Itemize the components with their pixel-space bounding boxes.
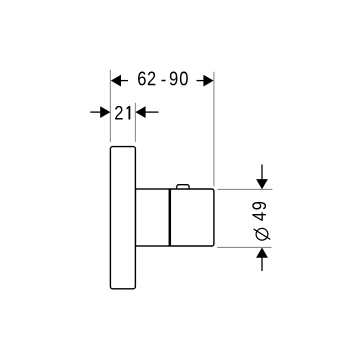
extension line 21 right (plate right edge) bbox=[134, 103, 136, 142]
diameter symbol slash bbox=[254, 229, 271, 239]
sleeve between plate and handle bbox=[135, 189, 169, 246]
dimension 21 left arrow bbox=[90, 106, 110, 118]
extension line left (plate left edge) bbox=[109, 70, 111, 143]
divider line sleeve/handle bbox=[169, 188, 172, 246]
dimension text 62 - 90 bbox=[138, 72, 188, 86]
dimension dia49 top arrow bbox=[256, 164, 268, 189]
dimension 21 right arrow bbox=[135, 106, 158, 118]
diameter symbol circle bbox=[256, 228, 268, 240]
extension line 62-90 right (handle front) bbox=[213, 72, 215, 187]
escutcheon wall plate (side view) bbox=[110, 147, 135, 289]
handle body (front knob) bbox=[170, 189, 214, 246]
dimension text 21 bbox=[115, 106, 130, 120]
dimension text 49 (rotated) bbox=[252, 202, 266, 221]
extension line dia49 bottom bbox=[217, 246, 272, 248]
extension line dia49 top bbox=[217, 188, 272, 190]
dimension 62-90 right arrow bbox=[197, 75, 214, 87]
grip tab on handle top bbox=[176, 185, 189, 190]
dimension dia49 bottom arrow bbox=[256, 248, 268, 272]
dimension 62-90 left arrow bbox=[111, 75, 128, 87]
